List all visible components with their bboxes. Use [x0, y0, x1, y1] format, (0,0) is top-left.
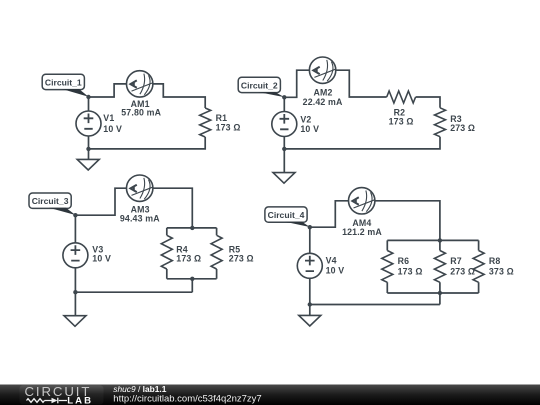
wire: parallel top rail R6 R7 R8	[387, 240, 478, 250]
value label R6 173 ohm	[398, 256, 423, 277]
label Circuit_1 callout	[42, 74, 88, 97]
voltage source V1	[76, 111, 101, 136]
svg-text:Circuit_2: Circuit_2	[241, 80, 278, 90]
wire: ground stem circuit 2	[283, 149, 285, 173]
label Circuit_3 callout	[29, 193, 75, 215]
value label R8 373 ohm	[489, 256, 514, 277]
value label V3 10 V	[92, 244, 111, 263]
resistor R2	[387, 91, 416, 103]
wire: ground stem circuit 3	[74, 292, 76, 316]
svg-text:173 Ω: 173 Ω	[176, 253, 201, 263]
wire: AM3 right terminal to parallel block feed	[153, 188, 192, 228]
value label V1 10 V	[103, 113, 122, 134]
voltage source V3	[63, 243, 88, 268]
svg-text:http://circuitlab.com/c53f4q2n: http://circuitlab.com/c53f4q2nz7zy7	[113, 394, 261, 405]
value label V4 10 V	[326, 256, 345, 276]
node: junction dot parallel top rail c3	[190, 226, 194, 230]
svg-text:AM2: AM2	[313, 87, 332, 97]
resistor R7	[434, 251, 445, 283]
node: junction dot circuit4 bottom	[308, 302, 312, 306]
ground circuit 4	[299, 315, 321, 326]
value label R4 173 ohm	[176, 244, 201, 263]
resistor R4	[161, 235, 172, 269]
label Circuit_4 callout	[265, 207, 310, 227]
wire: node3 right and up to AM3 left terminal	[75, 188, 126, 215]
value label R3 273 ohm	[450, 114, 475, 133]
resistor R5	[211, 235, 222, 269]
wire: node1 right and up to AM1 left terminal	[89, 84, 127, 97]
value label AM2 22.42 mA	[303, 87, 343, 107]
node: junction dot circuit4 top	[308, 225, 312, 229]
logo resistor zigzag and diode	[27, 398, 68, 404]
voltage source V4	[297, 253, 322, 278]
svg-text:273 Ω: 273 Ω	[450, 123, 475, 133]
svg-text:R7: R7	[450, 256, 462, 266]
footer url	[113, 394, 261, 405]
svg-text:shuc9 / lab1.1: shuc9 / lab1.1	[113, 384, 166, 394]
wire: bottom wire circuit 3	[75, 268, 192, 292]
ammeter AM2	[309, 57, 335, 83]
resistor R6	[382, 251, 393, 283]
node A: junction dot circuit1 top	[86, 95, 90, 99]
svg-text:LAB: LAB	[67, 395, 93, 405]
value label AM4 121.2 mA	[342, 218, 382, 237]
wire: node4 right and up to AM4 left terminal	[310, 201, 349, 227]
svg-text:Circuit_4: Circuit_4	[268, 210, 305, 220]
logo LAB text	[67, 395, 93, 405]
wire: R2 right to corner down to R3 top	[416, 97, 440, 108]
svg-text:173 Ω: 173 Ω	[389, 116, 414, 126]
svg-text:10 V: 10 V	[92, 254, 111, 264]
ammeter AM3	[127, 175, 153, 201]
wire: ground stem circuit 1	[88, 149, 90, 160]
ground circuit 3	[64, 316, 86, 327]
wire: AM1 right terminal down to top wire and to R1 top	[153, 84, 205, 108]
wire: node2 to V2 top	[283, 97, 285, 111]
svg-text:273 Ω: 273 Ω	[450, 267, 475, 277]
wire: R1 bottom to bottom rail back to V1 bottom	[89, 136, 206, 149]
resistor R3	[435, 108, 446, 137]
node: junction dot circuit2 bottom	[282, 147, 286, 151]
value label AM1 57.80 mA	[121, 99, 161, 118]
CircuitLab logo wordmark	[25, 384, 92, 399]
value label R1 173 ohm	[216, 113, 241, 132]
svg-text:Circuit_3: Circuit_3	[32, 196, 69, 206]
resistor R1	[200, 108, 211, 137]
ammeter AM1	[127, 71, 153, 97]
wire: AM4 right terminal to parallel block feed	[375, 201, 440, 241]
wire: parallel top rail R4 R5	[167, 228, 217, 235]
svg-text:Circuit_1: Circuit_1	[45, 77, 82, 87]
svg-text:22.42 mA: 22.42 mA	[303, 97, 343, 107]
svg-text:94.43 mA: 94.43 mA	[120, 213, 160, 223]
node: junction dot circuit2 top	[282, 95, 286, 99]
svg-text:V4: V4	[326, 256, 337, 266]
svg-text:173 Ω: 173 Ω	[216, 122, 241, 132]
logo plate highlight	[20, 385, 104, 404]
wire: node3 to V3 top	[74, 215, 76, 243]
wire: parallel bottom rail R6 R7 R8	[387, 282, 478, 304]
node: junction dot parallel bottom rail c3	[190, 277, 194, 281]
svg-text:10 V: 10 V	[326, 265, 345, 275]
wire: node4 to V4 top	[309, 227, 311, 253]
node: junction dot circuit3 top	[73, 213, 77, 217]
wire: ground stem circuit 4	[309, 305, 311, 316]
footer title shuc9 / lab1.1	[113, 384, 166, 394]
wire: R3 bottom along bottom rail to V2 bottom	[284, 137, 440, 149]
node: junction dot parallel top rail c4	[438, 238, 442, 242]
value label AM3 94.43 mA	[120, 205, 160, 224]
resistor R8	[473, 251, 484, 283]
value label V2 10 V	[300, 114, 319, 134]
svg-text:10 V: 10 V	[103, 124, 122, 134]
svg-text:R8: R8	[489, 256, 501, 266]
wire: parallel bottom rail R4 R5	[167, 269, 217, 292]
wire: AM2 right terminal down to top wire toward R2	[336, 70, 387, 97]
svg-text:173 Ω: 173 Ω	[398, 267, 423, 277]
wire: node2 right and up to AM2 left terminal	[284, 70, 309, 97]
svg-text:R6: R6	[398, 256, 410, 266]
node: junction dot parallel bottom rail c4	[438, 291, 442, 295]
wire: node1 to V1 top	[88, 97, 90, 111]
svg-text:10 V: 10 V	[300, 124, 319, 134]
node: junction dot circuit1 bottom	[86, 147, 90, 151]
svg-text:57.80 mA: 57.80 mA	[121, 108, 161, 118]
svg-text:373 Ω: 373 Ω	[489, 267, 514, 277]
value label R2 173 ohm	[389, 108, 414, 127]
ammeter AM4	[349, 188, 375, 214]
svg-text:V2: V2	[300, 114, 311, 124]
svg-text:V1: V1	[103, 113, 114, 123]
svg-text:273 Ω: 273 Ω	[229, 253, 254, 263]
svg-text:121.2 mA: 121.2 mA	[342, 227, 382, 237]
wire: bottom wire circuit 4	[310, 278, 440, 304]
ground circuit 2	[273, 173, 295, 184]
label Circuit_2 callout	[238, 77, 284, 97]
value label R7 273 ohm	[450, 256, 475, 277]
svg-text:R1: R1	[216, 113, 228, 123]
node: junction dot circuit3 bottom	[73, 290, 77, 294]
value label R5 273 ohm	[229, 244, 254, 263]
ground circuit 1	[77, 159, 99, 170]
voltage source V2	[272, 112, 297, 137]
